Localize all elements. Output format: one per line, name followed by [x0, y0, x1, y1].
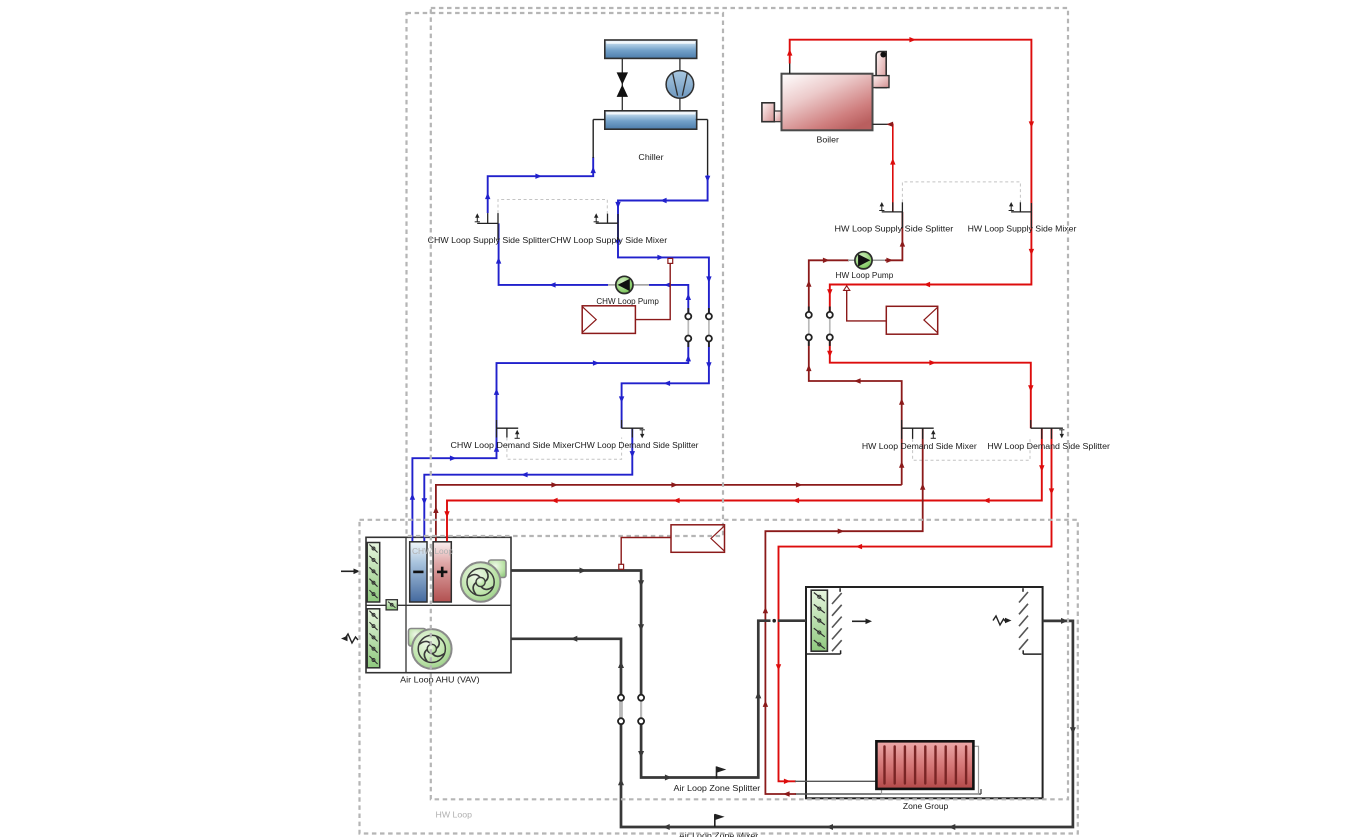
zone inlet node dot	[772, 619, 776, 623]
boiler body	[782, 74, 873, 131]
radiator supply pipe	[795, 780, 877, 782]
wire heating coil return	[436, 485, 902, 542]
AHU intake arrow	[341, 570, 355, 572]
AHU relief damper	[386, 600, 397, 610]
chiller compressor	[679, 58, 681, 110]
HW Loop Supply Side Mixer glyph	[1011, 211, 1031, 213]
wire supply mixer down to demand drop	[618, 223, 709, 316]
Air Loop Zone Mixer flag	[714, 814, 716, 827]
AHU OA damper	[367, 543, 380, 603]
svg-text:Air Loop Zone Splitter: Air Loop Zone Splitter	[674, 784, 761, 793]
HW setpoint node marker	[844, 286, 850, 291]
Air Loop AHU (VAV) box	[366, 537, 511, 672]
zone outlet squiggle arrow	[993, 616, 1006, 625]
wire HW demand mixer to pump riser	[809, 337, 902, 428]
node pair return air	[620, 698, 622, 722]
zone outlet diffuser hatch	[1019, 592, 1028, 603]
thin dashed connector HW demand	[913, 439, 1030, 460]
HW Loop Supply Side Splitter glyph	[882, 211, 903, 213]
Air Loop dashed boundary	[360, 520, 1078, 834]
wire CHW demand inlet	[622, 339, 709, 429]
chiller expansion valve	[621, 58, 623, 110]
svg-text:Air Loop AHU (VAV): Air Loop AHU (VAV)	[400, 676, 480, 685]
svg-text:HW Loop: HW Loop	[436, 811, 473, 820]
svg-text:HW Loop Supply Side Mixer: HW Loop Supply Side Mixer	[968, 225, 1077, 234]
svg-text:HW Loop Demand Side Mixer: HW Loop Demand Side Mixer	[862, 442, 977, 451]
wire HW demand inlet	[830, 337, 1031, 428]
zone outlet frame	[1022, 588, 1024, 592]
CHW Loop Supply Side Mixer glyph	[596, 222, 618, 224]
svg-text:Boiler: Boiler	[817, 135, 840, 144]
thin dashed connector CHW supply	[498, 200, 607, 214]
wire HW demand splitter to heating coil	[447, 428, 1042, 542]
thin dashed connector CHW demand	[507, 438, 622, 460]
wire to HW pump	[809, 260, 849, 315]
HW Loop Pump	[855, 252, 872, 269]
node circles HW	[806, 312, 812, 318]
AHU return damper	[367, 609, 380, 668]
Zone Group box	[806, 587, 1043, 798]
wire HW demand splitter to zone radiator	[779, 428, 1052, 781]
radiator return pipe	[795, 793, 981, 795]
svg-text:CHW Loop Supply Side Splitter: CHW Loop Supply Side Splitter	[428, 236, 550, 245]
CHW setpoint node marker	[668, 258, 673, 263]
HW setpoint manager box	[886, 306, 937, 334]
boiler chimney	[876, 52, 886, 88]
node circles air loop	[618, 695, 624, 701]
zone inlet arrow	[852, 620, 867, 622]
svg-text:CHW Loop: CHW Loop	[412, 547, 454, 556]
node pair HW return	[808, 315, 810, 338]
HW Loop Demand Side Mixer glyph	[902, 427, 934, 429]
svg-text:CHW Loop Pump: CHW Loop Pump	[596, 297, 659, 306]
svg-text:Chiller: Chiller	[638, 153, 663, 162]
AHU supply fan	[489, 560, 507, 578]
HW setpoint wire	[847, 291, 887, 321]
Air setpoint manager box	[671, 525, 725, 553]
supply duct to zone	[641, 621, 770, 778]
HW Loop dashed boundary	[431, 8, 1068, 799]
zone radiator	[876, 741, 973, 789]
AHU return fan	[409, 629, 427, 647]
wire chiller inlet from supply splitter	[488, 157, 594, 213]
zone outlet duct	[511, 621, 1073, 827]
CHW setpoint manager box	[582, 306, 635, 334]
wire boiler outlet top loop	[789, 63, 791, 74]
AHU exhaust squiggle	[341, 636, 348, 642]
CHW setpoint wire	[635, 263, 670, 319]
wire radiator return to demand mixer	[765, 428, 922, 794]
svg-text:HW Loop Supply Side Splitter: HW Loop Supply Side Splitter	[835, 225, 954, 234]
AHU heating coil	[433, 542, 451, 602]
radiator shadow	[882, 746, 979, 794]
node pair CHW supply outlet	[708, 316, 710, 338]
svg-text:CHW Loop Supply Side Mixer: CHW Loop Supply Side Mixer	[550, 236, 668, 245]
CHW Loop Demand Side Mixer glyph	[497, 427, 519, 429]
wire chiller outlet to supply mixer	[696, 119, 708, 121]
CHW Loop Supply Side Splitter glyph	[477, 222, 498, 224]
boiler left port	[762, 103, 775, 122]
wire to CHW pump	[649, 285, 688, 317]
Air setpoint wire	[621, 538, 671, 565]
wire HW pump outlet riser	[848, 259, 886, 261]
thin dashed connector HW supply	[902, 182, 1020, 202]
zone inlet frame	[839, 588, 841, 592]
node circles CHW	[685, 313, 691, 319]
zone inlet damper	[811, 590, 827, 651]
svg-text:HW Loop Pump: HW Loop Pump	[836, 271, 894, 280]
svg-text:Zone Group: Zone Group	[903, 802, 949, 811]
svg-text:HW Loop Demand Side Splitter: HW Loop Demand Side Splitter	[987, 442, 1110, 451]
node pair HW supply outlet	[829, 315, 831, 338]
node pair supply air	[640, 698, 642, 722]
svg-text:CHW Loop Demand Side Mixer: CHW Loop Demand Side Mixer	[451, 441, 575, 450]
Air Loop Zone Splitter flag	[716, 766, 718, 778]
AHU cooling coil	[410, 542, 427, 602]
supply air duct AHU to zone splitter	[511, 571, 641, 698]
wire cooling coil return to demand mixer	[412, 428, 496, 542]
HW Loop Demand Side Splitter glyph	[1031, 427, 1063, 429]
svg-text:CHW Loop Demand Side Splitter: CHW Loop Demand Side Splitter	[575, 441, 699, 450]
wire demand mixer up to supply side	[497, 339, 689, 429]
CHW Loop Pump	[616, 276, 633, 293]
CHW Loop Demand Side Splitter glyph	[622, 427, 644, 429]
Air setpoint node marker	[619, 564, 624, 569]
boiler chimney base	[873, 76, 890, 88]
wire demand splitter to cooling coil	[424, 428, 632, 542]
zone inlet diffuser hatch	[832, 593, 842, 604]
chiller evaporator bar	[605, 111, 697, 129]
wire HW supply mixer down/left	[830, 212, 1032, 315]
wire coil return up to demand mixer	[901, 428, 903, 485]
node pair CHW return	[687, 316, 689, 338]
wire supply splitter to boiler inlet	[888, 124, 893, 212]
chiller condenser bar	[605, 40, 697, 58]
CHW Loop dashed boundary	[407, 13, 724, 536]
